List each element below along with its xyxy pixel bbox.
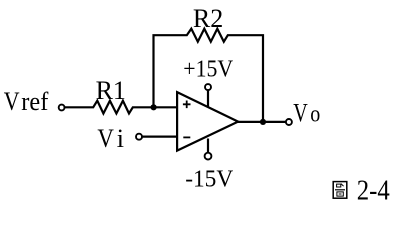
svg-text:+15V: +15V [183, 57, 233, 83]
svg-text:ref: ref [21, 87, 48, 116]
svg-text:V: V [4, 87, 20, 116]
svg-text:R2: R2 [193, 4, 223, 33]
svg-text:V: V [293, 99, 308, 128]
svg-text:i: i [117, 124, 124, 153]
svg-text:o: o [310, 102, 320, 128]
svg-text:-15V: -15V [185, 167, 234, 193]
svg-text:2-4: 2-4 [357, 176, 390, 207]
svg-text:R1: R1 [96, 76, 126, 105]
svg-text:V: V [97, 124, 114, 153]
